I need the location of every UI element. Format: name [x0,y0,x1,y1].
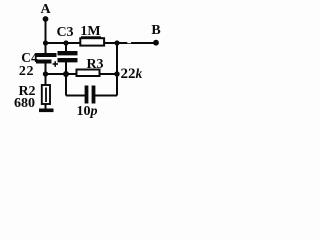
wire loop bottom left [66,95,85,97]
ground [39,109,54,113]
svg-text:B: B [151,23,160,38]
node wire between C4 and C3 bottoms [46,73,67,75]
1M underline [81,36,101,38]
wire 1M to B [105,42,157,44]
junction left on main wire [43,40,48,45]
resistor R3 [77,70,100,77]
junction dot mid [63,71,69,77]
svg-text:C4: C4 [21,50,38,65]
wire main horizontal left segment [46,42,81,44]
wire loop bottom right [95,95,117,97]
junction right on main wire [114,40,119,45]
wire R3 to right vertical [100,73,117,75]
wire node to R3 [66,73,77,75]
capacitor 10p [87,86,94,104]
svg-text:22: 22 [19,64,34,79]
resistor 1M [80,38,104,45]
wire A down to main node [45,19,47,54]
svg-text:10p: 10p [77,104,98,119]
capacitor C4 (electrolytic) [36,55,58,74]
svg-text:22k: 22k [121,66,143,82]
wire loop left vertical [65,74,67,96]
node B terminal dot [153,40,159,46]
node A terminal dot [43,16,49,22]
wire right vertical [116,43,118,96]
svg-text:680: 680 [14,96,35,111]
resistor R2 [42,74,50,109]
svg-text:C3: C3 [56,25,73,40]
junction C3 top [63,40,68,45]
junction dot left [43,71,48,76]
svg-text:A: A [40,2,51,17]
capacitor C3 [58,43,78,74]
junction R3 right [114,71,119,76]
